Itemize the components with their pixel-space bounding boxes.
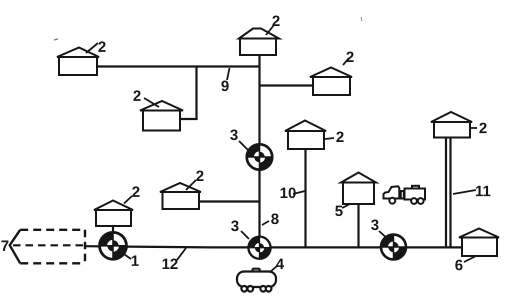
svg-text:2: 2 bbox=[336, 129, 344, 146]
svg-text:3: 3 bbox=[231, 218, 239, 235]
svg-text:7: 7 bbox=[1, 238, 9, 255]
svg-text:2: 2 bbox=[133, 88, 141, 105]
svg-text:2: 2 bbox=[479, 120, 487, 137]
svg-text:3: 3 bbox=[371, 217, 379, 234]
svg-text:8: 8 bbox=[271, 211, 279, 228]
svg-text:9: 9 bbox=[221, 78, 229, 95]
svg-text:2: 2 bbox=[272, 13, 280, 30]
svg-text:3: 3 bbox=[230, 127, 238, 144]
svg-text:2: 2 bbox=[196, 168, 204, 185]
svg-text:1: 1 bbox=[131, 253, 139, 270]
svg-text:10: 10 bbox=[280, 185, 297, 202]
svg-text:5: 5 bbox=[335, 203, 343, 220]
svg-text:12: 12 bbox=[162, 256, 179, 273]
svg-text:2: 2 bbox=[346, 49, 354, 66]
svg-text:2: 2 bbox=[132, 184, 140, 201]
svg-text:6: 6 bbox=[455, 257, 463, 274]
svg-text:11: 11 bbox=[475, 183, 491, 200]
svg-text:2: 2 bbox=[98, 39, 106, 56]
svg-text:4: 4 bbox=[276, 256, 285, 273]
